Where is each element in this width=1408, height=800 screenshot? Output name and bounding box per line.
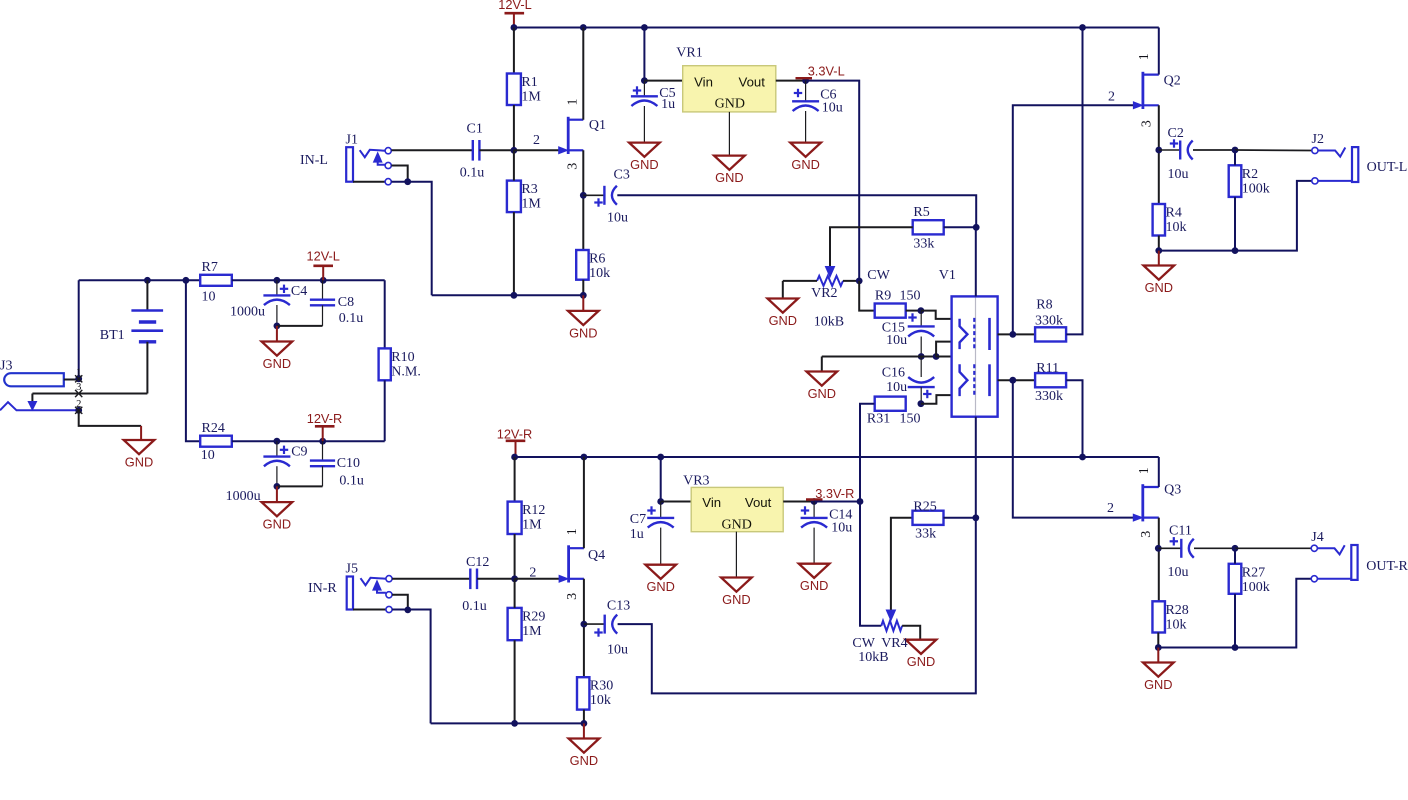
node ground bus junctions bbox=[511, 292, 518, 299]
svg-text:1: 1 bbox=[76, 368, 81, 379]
resistor R10 bbox=[379, 348, 391, 380]
svg-text:OUT-L: OUT-L bbox=[1367, 160, 1408, 175]
svg-text:R25: R25 bbox=[913, 500, 936, 515]
svg-text:33k: 33k bbox=[915, 527, 936, 542]
svg-text:3.3V-L: 3.3V-L bbox=[808, 63, 845, 78]
wire V1 anode2 to R11 bbox=[998, 379, 1035, 381]
ground GND below VR1 bbox=[714, 156, 745, 170]
svg-text:1: 1 bbox=[1137, 53, 1152, 60]
svg-text:Vin: Vin bbox=[694, 75, 713, 90]
wire R31 left to 3.3V-R net bbox=[860, 404, 874, 502]
svg-text:R29: R29 bbox=[522, 609, 545, 624]
svg-text:3: 3 bbox=[565, 593, 580, 600]
ground GND at V1 common bbox=[807, 372, 838, 386]
svg-text:0.1u: 0.1u bbox=[339, 311, 364, 326]
svg-text:C16: C16 bbox=[882, 366, 905, 381]
tube V1 top cell anode bar bbox=[988, 318, 991, 350]
connector J5 bbox=[347, 577, 353, 610]
svg-text:C4: C4 bbox=[291, 284, 307, 299]
svg-text:2: 2 bbox=[529, 566, 536, 581]
svg-text:GND: GND bbox=[1145, 280, 1173, 295]
wire V1 bottom pin bbox=[975, 417, 977, 518]
wire R24 right to 12V-R rail bbox=[232, 440, 385, 442]
wire R7 right to 12V-L rail bbox=[232, 279, 385, 281]
wire J1 ring to sleeve bbox=[391, 166, 407, 182]
capacitor C2 bbox=[1159, 149, 1180, 151]
wire Q1 source down bbox=[582, 150, 584, 250]
svg-text:J4: J4 bbox=[1311, 530, 1323, 545]
wire Q2 source down bbox=[1158, 105, 1160, 204]
capacitor C11 bbox=[1158, 547, 1181, 549]
svg-text:R30: R30 bbox=[590, 679, 613, 694]
svg-text:10u: 10u bbox=[607, 211, 628, 226]
svg-text:GND: GND bbox=[646, 579, 674, 594]
svg-text:GND: GND bbox=[263, 517, 291, 532]
wire output ground bus L bbox=[1159, 181, 1312, 251]
wire J3 pin2 to ground bbox=[79, 410, 141, 426]
wire R24 left leg bbox=[186, 280, 200, 441]
svg-text:V1: V1 bbox=[939, 268, 956, 283]
tube V1 box bbox=[975, 296, 977, 416]
wire R27 stems bbox=[1234, 548, 1236, 564]
svg-text:150: 150 bbox=[900, 412, 921, 427]
node R9/C15 junction bbox=[918, 307, 925, 314]
node C5/Vin junction bbox=[641, 77, 648, 84]
wire R10 bottom to 12V-R rail bbox=[384, 380, 386, 441]
resistor R11 bbox=[1035, 373, 1066, 387]
resistor R3 bbox=[507, 181, 521, 213]
capacitor C9 bbox=[276, 441, 278, 456]
wire J1 sleeve down to ground bus bbox=[391, 182, 431, 296]
svg-text:VR2: VR2 bbox=[811, 286, 837, 301]
svg-text:R31: R31 bbox=[867, 412, 890, 427]
svg-text:100k: 100k bbox=[1242, 181, 1270, 196]
wire R29 stems bbox=[514, 579, 516, 608]
wire gate junction to Q4 gate bbox=[515, 578, 560, 580]
svg-text:VR1: VR1 bbox=[676, 46, 702, 61]
wire Q2 drain to bus bbox=[1158, 28, 1160, 75]
potentiometer VR2 bbox=[825, 267, 834, 278]
node C15 bottom junction bbox=[918, 353, 925, 360]
node J1 sleeve junction bbox=[404, 178, 411, 185]
svg-text:R2: R2 bbox=[1242, 167, 1258, 182]
svg-text:GND: GND bbox=[769, 313, 797, 328]
wire V1 common mid wire bbox=[822, 356, 936, 358]
svg-text:1M: 1M bbox=[521, 90, 541, 105]
wire VR1 Vout to 3.3V-L bbox=[776, 80, 806, 82]
wire C12 to gate junction bbox=[477, 578, 515, 580]
wire V1 pin 4 entry bbox=[921, 395, 952, 404]
ground GND below C4 bbox=[276, 326, 278, 342]
regulator VR3 bbox=[691, 487, 783, 531]
svg-text:C10: C10 bbox=[337, 456, 360, 471]
svg-text:CW: CW bbox=[852, 636, 875, 651]
wire V1 pin 1 entry bbox=[921, 311, 952, 319]
wire R11 right to 12V-R bus bbox=[1066, 380, 1082, 457]
svg-text:330k: 330k bbox=[1035, 389, 1063, 404]
wire R6 bottom bbox=[582, 280, 584, 296]
wire gate junction to Q1 gate bbox=[514, 149, 559, 151]
svg-text:GND: GND bbox=[907, 654, 935, 669]
svg-text:1u: 1u bbox=[630, 527, 644, 542]
svg-text:12V-L: 12V-L bbox=[306, 249, 339, 264]
capacitor C13 bbox=[584, 623, 605, 625]
capacitor C12 bbox=[469, 569, 471, 590]
svg-text:10k: 10k bbox=[1166, 220, 1187, 235]
svg-text:IN-L: IN-L bbox=[300, 153, 328, 168]
wire C2 to J2 tip bbox=[1193, 149, 1235, 151]
wire V1 anode1 to R8 bbox=[998, 333, 1035, 335]
svg-text:1: 1 bbox=[565, 528, 580, 535]
wire VR4 right to ground bbox=[902, 626, 920, 640]
svg-text:VR4: VR4 bbox=[881, 636, 907, 651]
wire R8 right to 12V-L bbox=[1066, 28, 1082, 335]
svg-text:J3: J3 bbox=[0, 359, 12, 374]
svg-text:N.M.: N.M. bbox=[391, 364, 421, 379]
svg-text:100k: 100k bbox=[1242, 580, 1270, 595]
wire common to ground bbox=[821, 357, 823, 372]
wire battery top bus bbox=[79, 279, 201, 281]
node R31/C16 junction bbox=[918, 400, 925, 407]
svg-text:C13: C13 bbox=[607, 599, 630, 614]
wire VR3 Vout to 3.3V-R bbox=[783, 501, 814, 503]
wire C9/C10 bottom bbox=[277, 485, 323, 487]
svg-text:C7: C7 bbox=[630, 512, 646, 527]
node R25/V1 junction bbox=[972, 514, 979, 521]
capacitor C15 bbox=[920, 311, 922, 327]
svg-text:C11: C11 bbox=[1169, 524, 1192, 539]
wire R28 bottom bbox=[1157, 633, 1159, 648]
wire VR1 GND pin bbox=[728, 112, 730, 156]
svg-text:GND: GND bbox=[715, 97, 745, 112]
ground GND below R30 bbox=[583, 723, 585, 738]
node C11 junction bbox=[1155, 545, 1162, 552]
svg-text:1M: 1M bbox=[522, 518, 542, 533]
wire input ground bus R bbox=[431, 722, 584, 724]
wire C5 branch from bus bbox=[643, 28, 645, 81]
svg-text:1000u: 1000u bbox=[230, 305, 265, 320]
wire R4 bottom bbox=[1158, 236, 1160, 251]
svg-text:R6: R6 bbox=[589, 252, 605, 267]
svg-text:10kB: 10kB bbox=[858, 650, 888, 665]
svg-text:10u: 10u bbox=[886, 380, 907, 395]
svg-text:2: 2 bbox=[533, 133, 540, 148]
ground GND below C14 bbox=[799, 564, 830, 578]
transistor Q3 JFET bbox=[1141, 484, 1144, 521]
svg-text:GND: GND bbox=[800, 578, 828, 593]
plug symbol at J3 bbox=[31, 394, 33, 402]
node gate junction Q1 bbox=[511, 147, 518, 154]
wire 3.3V-L to VR2 CW bbox=[806, 81, 860, 281]
svg-text:3: 3 bbox=[1139, 531, 1154, 538]
wire C11 to J4 tip bbox=[1194, 547, 1235, 549]
ground GND at VR2 bbox=[768, 299, 799, 313]
svg-text:C9: C9 bbox=[291, 445, 307, 460]
svg-text:C8: C8 bbox=[338, 295, 354, 310]
ground GND below VR3 bbox=[721, 578, 752, 592]
svg-text:BT1: BT1 bbox=[100, 328, 125, 343]
resistor R25 bbox=[913, 511, 944, 525]
svg-text:10kB: 10kB bbox=[814, 315, 844, 330]
resistor R27 bbox=[1229, 564, 1242, 594]
wire R2 stems bbox=[1234, 150, 1236, 165]
wire R5 left to VR2 wiper bbox=[830, 227, 913, 266]
wire Vin to VR3 bbox=[661, 501, 692, 503]
potentiometer VR4 bbox=[886, 610, 895, 621]
svg-text:1: 1 bbox=[566, 99, 581, 106]
svg-text:GND: GND bbox=[125, 455, 153, 470]
node R5/V1 grid junction bbox=[973, 224, 980, 231]
svg-text:10k: 10k bbox=[1165, 617, 1186, 632]
svg-text:Vout: Vout bbox=[745, 495, 772, 510]
svg-text:GND: GND bbox=[569, 325, 597, 340]
svg-text:R9: R9 bbox=[875, 289, 891, 304]
ground GND below C9 bbox=[276, 486, 278, 502]
wire anode2 to Q3 gate bbox=[1013, 380, 1134, 517]
resistor R5 bbox=[913, 220, 944, 234]
svg-text:R5: R5 bbox=[913, 205, 929, 220]
capacitor C10 bbox=[322, 441, 324, 460]
svg-text:330k: 330k bbox=[1035, 314, 1063, 329]
svg-text:Q3: Q3 bbox=[1164, 483, 1181, 498]
svg-text:GND: GND bbox=[722, 592, 750, 607]
svg-text:GND: GND bbox=[1144, 677, 1172, 692]
node ground bus junctions R bbox=[511, 720, 518, 727]
wire VR2 low end to ground bbox=[782, 281, 784, 299]
capacitor C7 bbox=[660, 502, 662, 518]
tube V1 bottom cell anode bar bbox=[988, 364, 991, 396]
wire bottom 12V-R bus bbox=[515, 456, 1159, 458]
wire R25 right to node bbox=[944, 517, 976, 519]
svg-text:R4: R4 bbox=[1166, 206, 1182, 221]
node C2 junction bbox=[1155, 147, 1162, 154]
wire R3 stems bbox=[513, 150, 515, 180]
svg-text:Q1: Q1 bbox=[589, 118, 606, 133]
svg-text:GND: GND bbox=[722, 518, 752, 533]
wire J1 tip to C1 bbox=[391, 149, 472, 151]
svg-text:10u: 10u bbox=[1168, 167, 1189, 182]
capacitor C1 bbox=[472, 140, 474, 161]
wire J5 tip to C12 bbox=[392, 578, 470, 580]
resistor R12 bbox=[508, 502, 522, 534]
capacitor C6 bbox=[805, 81, 807, 102]
wire J3 pin1 up bbox=[78, 280, 80, 379]
transistor Q4 JFET bbox=[567, 545, 570, 582]
ground GND below C6 bbox=[790, 143, 821, 157]
wire Q1 drain to bus bbox=[582, 28, 584, 120]
node J5 sleeve junction bbox=[404, 607, 411, 614]
svg-text:R3: R3 bbox=[521, 182, 537, 197]
svg-text:3: 3 bbox=[76, 382, 81, 393]
svg-text:12V-L: 12V-L bbox=[498, 0, 531, 12]
wire V1 pin 3 entry bbox=[936, 356, 952, 358]
node R28 bottom junction bbox=[1155, 644, 1162, 651]
capacitor C4 bbox=[276, 280, 278, 295]
svg-text:R8: R8 bbox=[1036, 298, 1052, 313]
node anode1 junction bbox=[1009, 331, 1016, 338]
wire Vin to VR1 bbox=[644, 80, 682, 82]
tube V1 bottom cell cathode chevron bbox=[960, 364, 968, 396]
wire input ground bus bbox=[432, 294, 584, 296]
ground GND below R6 bbox=[582, 295, 584, 311]
wire R9 right to junction bbox=[906, 310, 921, 312]
svg-text:OUT-R: OUT-R bbox=[1366, 559, 1408, 574]
svg-text:C1: C1 bbox=[467, 122, 483, 137]
wire 3.3V-R to VR4 bbox=[814, 501, 860, 503]
wire VR3 GND pin bbox=[735, 532, 737, 578]
capacitor C5 bbox=[643, 81, 645, 97]
tube V1 top cell cathode chevron bbox=[960, 319, 968, 349]
wire R12 bottom stem bbox=[514, 534, 516, 579]
wire C7 branch from bus bbox=[660, 457, 662, 502]
wire V1 top pin bbox=[975, 227, 977, 296]
node 3.3V-L junction bbox=[802, 77, 809, 84]
svg-text:3: 3 bbox=[1139, 120, 1154, 127]
wire R1 bottom stem bbox=[513, 105, 515, 150]
node J3 pin1 bbox=[75, 375, 82, 382]
wire R30 bottom bbox=[583, 710, 585, 724]
svg-text:10: 10 bbox=[201, 448, 215, 463]
svg-text:10u: 10u bbox=[831, 521, 852, 536]
resistor R9 bbox=[875, 304, 906, 318]
svg-text:10: 10 bbox=[202, 290, 216, 305]
svg-text:R12: R12 bbox=[522, 503, 545, 518]
ground GND below R28 bbox=[1157, 648, 1159, 663]
resistor R29 bbox=[508, 608, 522, 640]
svg-text:Vin: Vin bbox=[702, 495, 721, 510]
svg-text:1M: 1M bbox=[522, 624, 542, 639]
svg-text:Q2: Q2 bbox=[1164, 74, 1181, 89]
node C3 junction bbox=[580, 192, 587, 199]
svg-text:0.1u: 0.1u bbox=[460, 166, 485, 181]
wire anode1 to Q2 gate bbox=[1013, 105, 1134, 334]
wire C1 to gate junction bbox=[479, 149, 514, 151]
resistor R30 bbox=[577, 677, 589, 709]
wire CW to R9 bbox=[859, 281, 874, 311]
svg-text:1000u: 1000u bbox=[226, 489, 261, 504]
resistor R1 bbox=[507, 74, 521, 106]
resistor R7 bbox=[200, 275, 232, 286]
node 12V-L bus junctions bbox=[511, 24, 518, 31]
svg-text:12V-R: 12V-R bbox=[307, 411, 343, 426]
wire Q3 drain to bus bbox=[1158, 457, 1160, 487]
resistor R28 bbox=[1152, 601, 1165, 632]
svg-text:10u: 10u bbox=[822, 101, 843, 116]
node anode2 junction bbox=[1009, 377, 1016, 384]
svg-text:1M: 1M bbox=[521, 197, 541, 212]
capacitor C3 bbox=[583, 194, 604, 196]
svg-text:R27: R27 bbox=[1242, 565, 1265, 580]
capacitor C14 bbox=[813, 502, 815, 518]
node J3 pin2 bbox=[75, 407, 82, 414]
svg-text:10u: 10u bbox=[1168, 565, 1189, 580]
resistor R24 bbox=[200, 436, 232, 447]
svg-text:150: 150 bbox=[900, 289, 921, 304]
svg-text:R10: R10 bbox=[391, 350, 414, 365]
ground GND at VR4 bbox=[906, 640, 937, 654]
svg-text:33k: 33k bbox=[913, 237, 934, 252]
svg-text:GND: GND bbox=[715, 170, 743, 185]
svg-text:J5: J5 bbox=[346, 561, 358, 576]
wire J5 sleeve down to ground bus bbox=[392, 610, 431, 724]
wire 12V-L rail to R10 bbox=[384, 280, 386, 348]
wire VR4 wiper to R25 bbox=[891, 518, 913, 610]
svg-text:2: 2 bbox=[1107, 501, 1114, 516]
wire V1 pin 2 entry bbox=[936, 342, 952, 357]
svg-text:10k: 10k bbox=[590, 693, 611, 708]
resistor R31 bbox=[875, 397, 906, 411]
capacitor C16 bbox=[920, 357, 922, 378]
wire R12 top stem bbox=[514, 457, 516, 502]
resistor R8 bbox=[1035, 327, 1066, 341]
ground GND below C5 bbox=[629, 143, 660, 157]
wire C13 output to R25/V1 node bbox=[618, 518, 976, 694]
svg-text:GND: GND bbox=[570, 753, 598, 768]
svg-text:10k: 10k bbox=[589, 266, 610, 281]
svg-text:R1: R1 bbox=[521, 75, 537, 90]
svg-text:C3: C3 bbox=[614, 168, 630, 183]
wire R5 right to node bbox=[944, 226, 977, 228]
svg-text:Vout: Vout bbox=[739, 75, 766, 90]
wire Q4 drain to bus bbox=[583, 457, 585, 548]
svg-text:R24: R24 bbox=[202, 421, 225, 436]
svg-text:2: 2 bbox=[1108, 90, 1115, 105]
wire output ground bus R bbox=[1158, 579, 1311, 648]
svg-text:0.1u: 0.1u bbox=[462, 599, 487, 614]
capacitor C8 bbox=[322, 280, 324, 299]
svg-text:VR3: VR3 bbox=[683, 474, 709, 489]
node C13 junction bbox=[581, 621, 588, 628]
ground GND below C7 bbox=[645, 565, 676, 579]
svg-text:0.1u: 0.1u bbox=[339, 474, 364, 489]
svg-text:GND: GND bbox=[630, 157, 658, 172]
wire R1 top stem bbox=[513, 28, 515, 74]
regulator VR1 bbox=[683, 66, 776, 112]
ground GND below R4 bbox=[1158, 251, 1160, 266]
svg-text:10u: 10u bbox=[886, 333, 907, 348]
svg-text:12V-R: 12V-R bbox=[497, 427, 533, 442]
wire J5 ring to sleeve bbox=[392, 595, 408, 610]
svg-text:1u: 1u bbox=[661, 97, 675, 112]
node 12V-R bus junctions bbox=[511, 454, 518, 461]
svg-text:C12: C12 bbox=[466, 555, 489, 570]
ground GND at J3 bbox=[124, 440, 155, 454]
svg-text:GND: GND bbox=[808, 386, 836, 401]
svg-text:CW: CW bbox=[867, 268, 890, 283]
svg-text:1: 1 bbox=[1137, 467, 1152, 474]
node R4 bottom junction bbox=[1155, 247, 1162, 254]
wire J3 pin3 to battery bbox=[32, 393, 147, 395]
svg-text:Q4: Q4 bbox=[588, 548, 605, 563]
node C9 bottom junction bbox=[274, 483, 281, 490]
svg-text:C2: C2 bbox=[1168, 126, 1184, 141]
node 3.3V-R junction bbox=[811, 498, 818, 505]
wire C3 output to R5/V1 node bbox=[617, 195, 976, 227]
wire Q4 source down bbox=[583, 579, 585, 677]
svg-text:R11: R11 bbox=[1036, 361, 1059, 376]
resistor R4 bbox=[1153, 204, 1165, 236]
node C7/Vin junction bbox=[657, 498, 664, 505]
tube V1 top cell grid dashed bbox=[973, 318, 975, 350]
svg-text:R28: R28 bbox=[1165, 603, 1188, 618]
svg-text:J2: J2 bbox=[1312, 132, 1324, 147]
node gate junction Q4 bbox=[511, 575, 518, 582]
transistor Q1 JFET bbox=[567, 117, 570, 154]
svg-text:IN-R: IN-R bbox=[308, 581, 337, 596]
transistor Q2 JFET bbox=[1142, 72, 1145, 109]
node C4 bottom junction bbox=[274, 323, 281, 330]
wire top 12V-L bus bbox=[514, 27, 1159, 29]
